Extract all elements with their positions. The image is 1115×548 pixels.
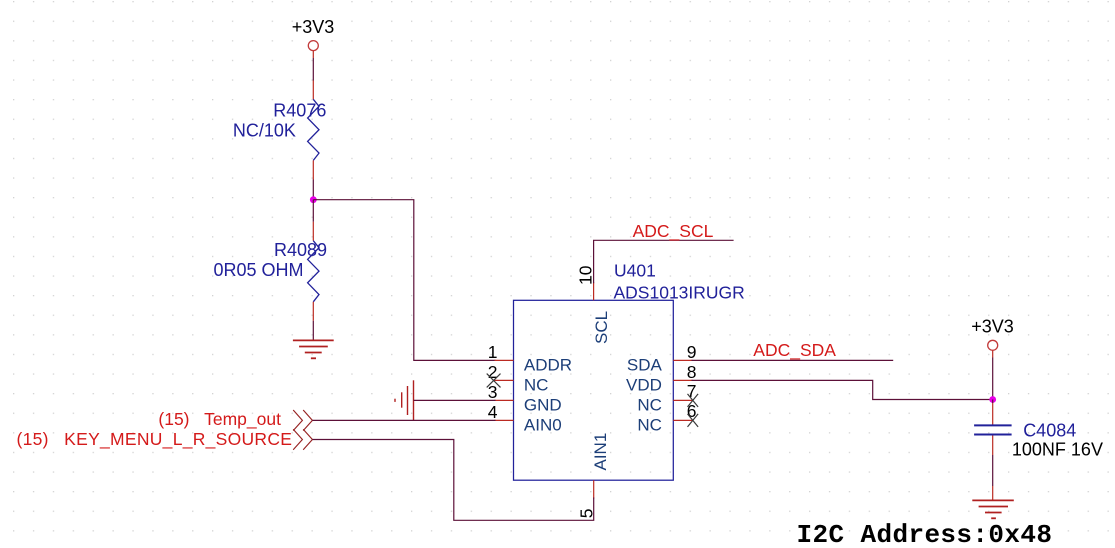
wire power to R4076 [312,51,314,99]
svg-text:VDD: VDD [626,375,662,394]
capacitor C4084 [974,425,1012,434]
svg-text:I2C Address:0x48: I2C Address:0x48 [797,520,1053,548]
svg-text:(15) Temp_out: (15) Temp_out [158,409,281,430]
pin 3 GND [488,382,562,414]
pin 10 SCL (top) [576,265,611,344]
svg-text:+3V3: +3V3 [292,17,335,37]
svg-text:SDA: SDA [627,355,663,374]
pin 5 AIN1 (bottom) [576,433,610,519]
svg-text:R4089: R4089 [274,240,327,260]
power symbol +3V3 (left) [292,17,335,51]
svg-text:C4084: C4084 [1023,421,1076,441]
no-connect X on pin 7 [688,394,699,407]
svg-text:R4076: R4076 [273,100,326,120]
pin 4 AIN0 [488,402,562,434]
svg-text:NC: NC [524,375,549,394]
pin 2 NC [488,362,549,394]
ground (right, earth symbol) [972,500,1014,518]
power symbol +3V3 (right) [971,317,1014,351]
wire signal ground to pin 3 [414,399,496,401]
wire SCL net [594,240,734,283]
signal ground near pin 3 [395,380,414,420]
junction node [310,196,317,203]
svg-text:GND: GND [524,395,562,414]
pin 6 NC [637,401,696,434]
wire Temp_out to pin 4 [312,419,495,421]
off-page connector KEY_MENU_L_R_SOURCE [17,429,313,450]
wire junction to capacitor [992,400,994,404]
svg-text:4: 4 [488,402,498,422]
wire +3V3 to junction [992,351,994,400]
no-connect X on pin 2 [487,374,501,388]
wire junction to pin1 ADDR [313,200,495,361]
svg-text:AIN0: AIN0 [524,415,562,434]
pin 7 NC [637,381,696,414]
svg-text:SCL: SCL [592,311,611,344]
wire R4089 to ground [312,302,314,341]
svg-text:NC: NC [637,395,662,414]
resistor R4089 [308,241,319,302]
pin 9 SDA [627,342,697,374]
svg-text:100NF 16V: 100NF 16V [1012,440,1103,460]
svg-text:AIN1: AIN1 [591,433,610,471]
svg-text:(15) KEY_MENU_L_R_SOURCE: (15) KEY_MENU_L_R_SOURCE [17,429,293,450]
wire KEY_MENU to pin 5 [312,440,593,521]
junction node (right) [989,396,996,403]
wire capacitor to ground [992,436,994,456]
resistor R4076 [308,99,319,160]
svg-text:ADDR: ADDR [524,355,572,374]
svg-text:8: 8 [687,362,697,382]
wire VDD to +3V3/C4084 junction [692,380,993,399]
svg-text:U401: U401 [614,261,656,281]
off-page connector Temp_out [158,409,312,431]
svg-text:ADC_SCL: ADC_SCL [633,221,714,242]
svg-text:NC: NC [637,415,662,434]
wire SDA net [692,359,894,361]
svg-text:NC/10K: NC/10K [233,120,296,140]
svg-text:1: 1 [488,342,498,362]
svg-text:10: 10 [576,265,596,285]
wire junction to R4089 [312,200,314,241]
svg-text:ADC_SDA: ADC_SDA [753,340,836,361]
no-connect X on pin 6 [688,414,699,427]
pin 8 VDD [626,362,697,394]
IC U401 body [514,300,674,480]
svg-text:9: 9 [687,342,697,362]
wire R4076 to junction [312,160,314,199]
svg-text:+3V3: +3V3 [971,317,1014,337]
pin 1 ADDR [488,342,572,374]
svg-text:ADS1013IRUGR: ADS1013IRUGR [614,282,745,302]
svg-text:3: 3 [488,382,498,402]
svg-text:0R05 OHM: 0R05 OHM [214,260,304,280]
ground (left, earth symbol) [293,340,334,358]
